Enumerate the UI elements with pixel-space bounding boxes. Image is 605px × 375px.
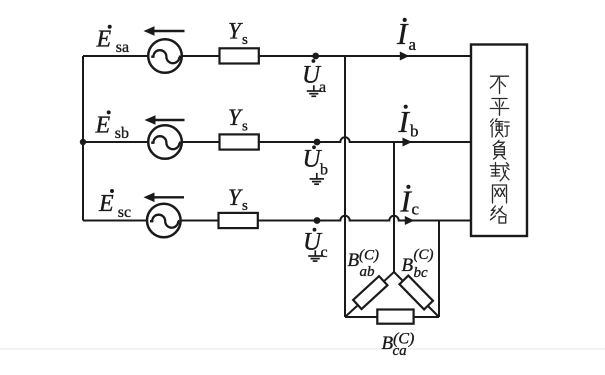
svg-text:s: s xyxy=(242,118,248,134)
svg-text:s: s xyxy=(242,198,248,214)
admittance Ys (phase b box) xyxy=(220,134,259,149)
svg-text:ca: ca xyxy=(393,343,407,359)
label Uc xyxy=(303,228,328,261)
wire: phase-a vertical drop to compensator xyxy=(344,56,346,317)
wire: phase-b vertical drop to delta apex xyxy=(393,142,395,272)
neutral bus junction dot xyxy=(80,139,86,145)
load box (unbalanced load network) xyxy=(471,45,527,237)
svg-text:Y: Y xyxy=(228,185,243,210)
current arrow Ia xyxy=(400,52,410,61)
load label: hand-drawn hanzi 负 xyxy=(493,140,505,159)
current arrow Ib xyxy=(403,138,413,147)
admittance Ys (phase a box) xyxy=(220,48,259,63)
wire: phase b horizontal with hop over phase-a drop xyxy=(83,137,471,142)
svg-text:sa: sa xyxy=(116,39,129,56)
susceptance Bbc box (tilted) xyxy=(399,276,432,310)
node c junction dot xyxy=(314,217,321,224)
label Ia xyxy=(396,16,417,54)
svg-text:a: a xyxy=(319,79,326,96)
label Ic xyxy=(400,183,420,218)
wire: delta right diagonal xyxy=(394,272,439,317)
svg-text:Y: Y xyxy=(228,19,243,44)
load label: hand-drawn hanzi 络 xyxy=(491,206,507,223)
label Ua xyxy=(302,59,326,96)
wire: phase a horizontal xyxy=(83,55,471,57)
svg-text:E: E xyxy=(96,27,112,53)
load label: hand-drawn hanzi 平 xyxy=(490,99,508,116)
svg-text:E: E xyxy=(98,191,114,217)
svg-text:b: b xyxy=(410,122,419,141)
wire: delta left diagonal xyxy=(345,272,394,317)
load label: hand-drawn hanzi 载 xyxy=(490,163,509,181)
source Esc xyxy=(147,204,181,238)
svg-text:bc: bc xyxy=(414,265,429,281)
svg-text:c: c xyxy=(412,200,420,219)
svg-text:b: b xyxy=(320,161,328,178)
wire: phase-c vertical drop to compensator xyxy=(438,221,440,318)
svg-text:c: c xyxy=(321,244,328,261)
load label: hand-drawn hanzi 不 xyxy=(490,76,508,93)
svg-text:ab: ab xyxy=(360,264,376,280)
current arrow Ic xyxy=(405,216,415,225)
wire: left neutral bus xyxy=(82,56,84,221)
node b junction dot xyxy=(314,139,321,146)
wire: delta bottom side xyxy=(345,316,439,318)
label Ys (phase a) xyxy=(228,19,248,48)
label Bbc(C) xyxy=(402,247,434,281)
ground under Ua xyxy=(307,85,321,96)
susceptance Bca box (horizontal, bottom) xyxy=(377,310,413,324)
ground under Uc xyxy=(308,250,322,261)
svg-text:s: s xyxy=(242,32,248,48)
label Esc xyxy=(98,189,131,221)
label Bab(C) xyxy=(348,247,380,280)
arrow above Esc xyxy=(144,193,185,203)
svg-text:I: I xyxy=(396,16,409,51)
source Esb xyxy=(148,125,182,159)
arrow above Esa (phase reference, pointing left) xyxy=(144,26,185,36)
label Ub xyxy=(303,145,329,178)
svg-text:(C): (C) xyxy=(414,247,434,263)
node a junction dot xyxy=(312,53,319,60)
admittance Ys (phase c box) xyxy=(219,213,258,228)
svg-text:Y: Y xyxy=(228,105,243,130)
svg-text:(C): (C) xyxy=(359,247,379,263)
susceptance Bab box (tilted) xyxy=(353,276,387,309)
label Bca(C) xyxy=(382,330,415,359)
source Esa (AC source circle with sine) xyxy=(148,39,182,73)
svg-text:I: I xyxy=(398,104,411,139)
svg-text:a: a xyxy=(409,35,417,54)
label Ib xyxy=(398,104,419,141)
label Esb xyxy=(95,110,130,142)
svg-text:B: B xyxy=(402,255,414,276)
svg-text:B: B xyxy=(348,250,360,271)
label Esa xyxy=(96,25,130,56)
label Ys (phase b) xyxy=(228,105,248,134)
arrow above Esb xyxy=(145,115,185,125)
wire: phase c horizontal with hops over phase-a and phase-b drops xyxy=(83,216,471,221)
svg-text:sc: sc xyxy=(118,204,131,221)
svg-text:E: E xyxy=(95,112,111,138)
svg-text:sb: sb xyxy=(115,125,129,142)
faint page rule xyxy=(0,348,605,350)
ground under Ub xyxy=(310,173,324,184)
label Ys (phase c) xyxy=(228,185,248,214)
load label: hand-drawn hanzi 衡 xyxy=(491,119,510,137)
load label: hand-drawn hanzi 网 xyxy=(493,185,507,203)
